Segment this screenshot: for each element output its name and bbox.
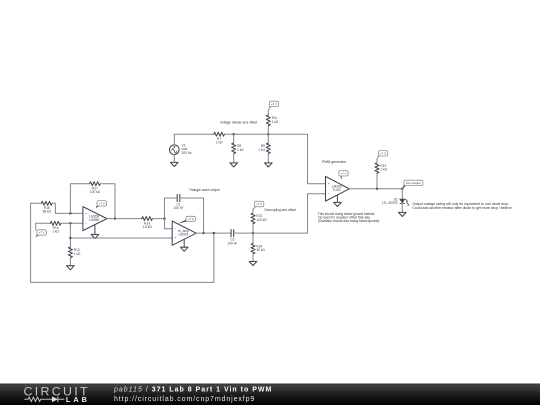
svg-text:Triangle wave output: Triangle wave output [189,188,220,192]
wire +7V flag to R16 [36,223,51,230]
wire reference to tri_amp + input [70,237,172,239]
resistor R9 (1 kΩ) [258,143,270,154]
wire R17 feedback right leg [100,184,115,219]
svg-text:−: − [85,222,87,226]
LED D1 (LTL-307EE) [382,198,409,207]
wire tri_amp output [196,232,214,234]
svg-text:+7 V: +7 V [380,151,386,155]
node C1/output junction [202,232,204,234]
wire R11 bottom to node [267,126,269,135]
comparator U3 LM339 TLM1 [326,176,350,201]
footer url text [114,396,255,403]
svg-text:LM358: LM358 [89,218,99,222]
wire output node to LED [401,189,403,199]
wire R14 to integrator - input [152,218,164,220]
resistor R17 (100 kΩ) [90,182,101,194]
ground below R10 [67,266,75,270]
svg-text:100 kΩ: 100 kΩ [256,218,267,222]
svg-text:+7 V: +7 V [340,171,346,175]
wire C3 to divider node [234,232,253,234]
svg-text:+7 V: +7 V [188,217,194,221]
CircuitLab logo LAB text [66,395,90,404]
wire R24 to ground [252,254,254,262]
svg-text:Decoupling and offset: Decoupling and offset [265,208,296,212]
ground below comparator [334,202,342,206]
wire C1 left leg [165,198,178,229]
svg-text:LM324: LM324 [179,233,189,237]
svg-text:into coupler: into coupler [406,181,421,185]
ground below op-amp1 [91,234,99,238]
svg-text:1 kΩ: 1 kΩ [380,168,387,172]
node tap to tri_amp + input [69,237,71,239]
wire - input node down to R10 [69,223,71,247]
wire R12 top to +7V flag [377,157,378,163]
wire oscillator feedback loop (bottom/left) [31,203,214,282]
node coupler junction [401,188,403,190]
node decoupling divider junction [252,232,254,234]
svg-text:+: + [174,236,176,240]
net flag +7 V at comparator [339,171,348,180]
ground below LED [399,212,407,216]
svg-text:LTL-307EE: LTL-307EE [382,201,398,205]
net flag +7 V at R16 [36,230,47,238]
svg-text:+: + [328,182,330,186]
wire R18 to op-amp + input [52,203,83,213]
svg-text:Voltage divider and offset: Voltage divider and offset [220,120,257,124]
wire divider node to R23 [252,224,254,234]
svg-text:100 kΩ: 100 kΩ [90,190,101,194]
wire tri_amp ground stub [183,239,185,247]
wire triangle output to C3 [214,232,231,234]
op-amp U2 tri_amp LM324 (integrator) [172,221,196,245]
svg-text:1 kΩ: 1 kΩ [237,148,244,152]
CircuitLab logo resistor-diode symbol [24,396,64,402]
svg-text:PWM generator: PWM generator [322,160,347,164]
svg-text:+: + [85,212,87,216]
wire R23 top to +7V flag [253,208,254,213]
node R14/C1 junction [163,217,165,219]
wire node to R9 [267,134,269,143]
capacitor C3 (100 nF) [227,229,237,245]
svg-text:1 kΩ: 1 kΩ [52,230,59,234]
wire R8 to ground [233,154,235,163]
wire divider node to R24 [252,233,254,243]
net flag +7 V at op-amp1 [96,201,107,209]
node op-amp1 + input junction [69,212,71,214]
svg-text:1 kΩ: 1 kΩ [258,148,265,152]
ground below V1 [171,162,179,166]
svg-text:http://circuitlab.com/cnp7mdnj: http://circuitlab.com/cnp7mdnjexfp9 [114,396,255,403]
svg-text:1.8 kΩ: 1.8 kΩ [142,225,152,229]
node R7/R8 junction [233,133,235,135]
wire R7 to node [224,133,233,135]
wire V1 bottom to ground [173,155,175,163]
wire R11 top to +7V flag [268,108,269,115]
wire divider node to comparator - input [253,194,326,233]
wire R10 to ground [69,258,71,266]
svg-text:100 nF: 100 nF [174,206,184,210]
wire op-amp1 output to R14 [107,218,142,220]
wire R9 to ground [267,154,269,163]
resistor R14 (1.8 kΩ) [142,217,153,229]
svg-text:200 Hz: 200 Hz [182,151,193,155]
svg-text:100 nF: 100 nF [227,241,237,245]
ground below tri_amp [180,247,188,251]
net flag +7 V at R11 [269,101,278,108]
wire R8 node to R9 node [234,133,269,135]
op-amp U1 LM358 (Schmitt trigger) [83,207,107,231]
wire comparator ground stub [336,195,338,203]
svg-text:39 kΩ: 39 kΩ [256,248,265,252]
svg-text:(Oscillator should also swing: (Oscillator should also swing below grou… [318,219,379,223]
resistor R16 (1 kΩ) [50,221,61,233]
wire node to R8 [233,134,235,143]
wire V1 top to R7 [174,134,214,145]
resistor R12 (1 kΩ) [375,163,388,174]
svg-text:−: − [174,226,176,230]
ground below R9 [265,163,273,167]
svg-text:LAB: LAB [66,395,90,404]
text label 'Voltage divider and offset' [220,120,257,124]
wire C1 node to - input [165,228,173,230]
annotation line 1 (comparator note) [318,212,376,216]
net flag +7 V at R23 [254,201,263,208]
capacitor C1 (100 nF) [174,194,184,210]
svg-text:−: − [328,192,330,196]
svg-text:+7 V: +7 V [99,201,105,205]
node R9/R11 junction [267,133,269,135]
resistor R11 (1 kΩ) [266,115,279,126]
wire LED to ground [401,203,403,212]
ground below R8 [230,163,238,167]
svg-text:1 kΩ: 1 kΩ [272,120,279,124]
ground below R24 [249,262,257,266]
text label 'PWM generator' [322,160,347,164]
svg-text:pab115 / 371 Lab 8 Part 1 Vin: pab115 / 371 Lab 8 Part 1 Vin to PWM [113,386,272,393]
footer title text [113,386,272,393]
CircuitLab logo wordmark CIRCUIT [24,385,90,399]
resistor R24 (39 kΩ) [251,243,265,254]
text label 'Triangle wave output' [189,188,220,192]
wire divider node to comparator + input [268,134,325,184]
wire op-amp1 ground stub [94,225,96,235]
node R12 junction [376,188,378,190]
resistor R10 (1 kΩ) [68,247,81,258]
wire R17 feedback left leg [70,184,89,214]
wire C1 right leg [180,198,204,233]
wire R12 bottom [376,173,378,188]
annotation line 1 (output note) [412,202,509,206]
resistor R8 (1 kΩ) [232,143,245,154]
svg-text:+7 V: +7 V [39,231,45,235]
node triangle output junction [213,232,215,234]
svg-text:1 kΩ: 1 kΩ [74,252,81,256]
text label 'Decoupling and offset' [265,208,296,212]
node op-amp1 output junction [114,217,116,219]
footer bar [0,384,540,405]
net flag +7 V at R12 [378,151,387,157]
net flag +7 V at tri_amp [178,216,196,223]
node op-amp1 - input junction [69,222,71,224]
annotation line 2 (output note) [412,206,511,210]
wire comparator output [349,188,402,190]
svg-text:1 kΩ: 1 kΩ [216,141,223,145]
net flag 'into coupler' [402,180,423,189]
svg-text:TLM1: TLM1 [333,188,341,192]
svg-text:68 kΩ: 68 kΩ [43,210,52,214]
resistor R23 (100 kΩ) [251,213,267,224]
svg-text:+7 V: +7 V [256,202,262,206]
wire R16 to op-amp - input [61,222,83,224]
svg-text:+7 V: +7 V [271,102,277,106]
annotation line 3 (comparator note) [318,219,379,223]
annotation line 2 (comparator note) [318,216,370,220]
voltage source V1 (sine 200 Hz) [170,144,193,155]
resistor R18 (68 kΩ) [42,201,53,213]
resistor R7 (1 kΩ) [214,132,225,144]
svg-text:Could add another resistor aft: Could add another resistor after diode t… [412,206,511,210]
